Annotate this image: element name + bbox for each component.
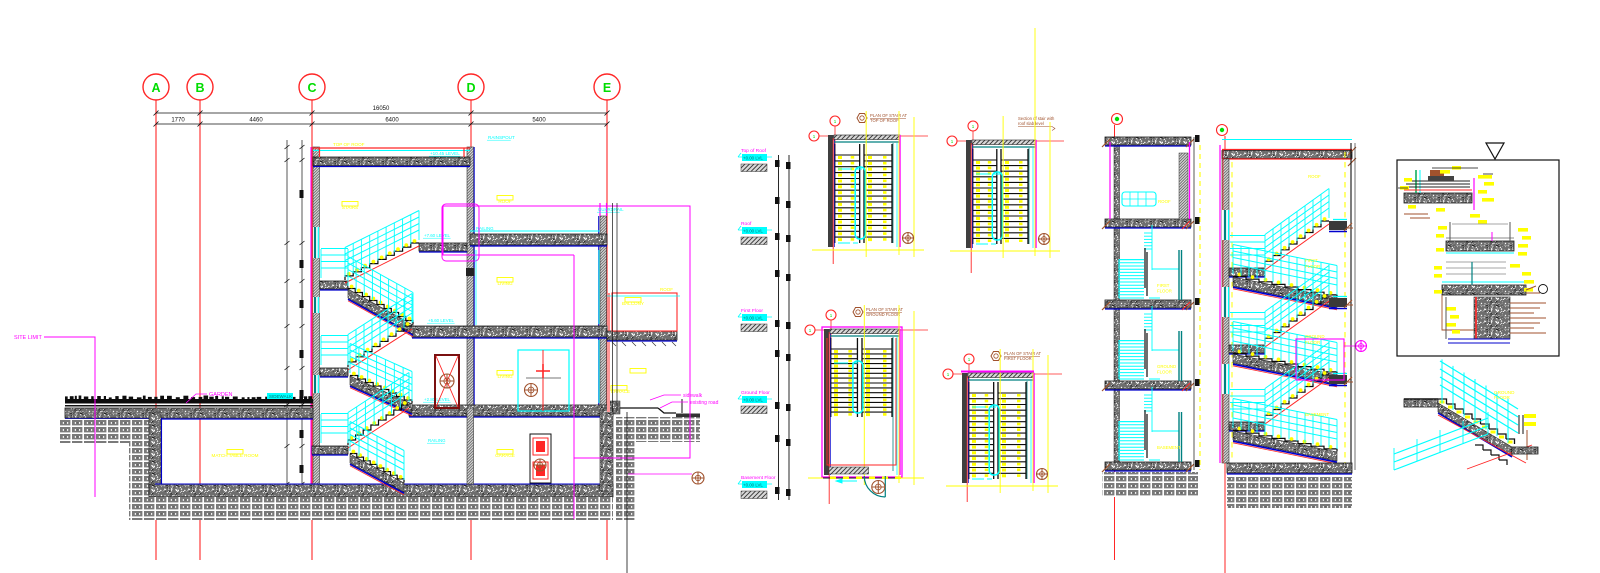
svg-text:C: C [307,81,316,95]
flight light mid368 to first floor [348,326,412,367]
detail marker circle left [943,369,953,379]
balcony [607,331,677,340]
detail marker circle top [830,116,840,126]
svg-text:First Floor: First Floor [741,308,763,314]
grid line B [199,100,201,560]
flight heavy mid281 to first floor [348,289,413,334]
svg-text:STAIRS: STAIRS [342,205,358,210]
stair plan left wall [828,135,834,247]
long yellow centerline above plan2 [1034,28,1036,140]
earth hatch left [60,419,149,443]
footing hatch bottom [129,497,613,520]
grid line A [155,100,157,560]
grid line C [311,100,313,560]
svg-text:GARAGE: GARAGE [495,453,515,458]
detail marker circle top [964,354,974,364]
yellow marks A [1400,186,1409,190]
wall grid E (right) [600,216,607,408]
tower1 left wall [1114,137,1120,470]
yellow centerlines [1002,116,1004,258]
detail marker circle top [968,121,978,131]
flower symbol [1039,234,1050,245]
roof slab left block [313,157,470,166]
svg-text:5400: 5400 [532,118,546,124]
stair plan left wall [962,373,968,483]
svg-text:BALCONY: BALCONY [622,301,644,306]
mid landing 368 [320,368,348,376]
svg-text:Ground Floor: Ground Floor [741,390,770,396]
stair well cyan [989,405,999,475]
window in left wall [313,297,320,313]
stair plan top wall hatch [830,329,900,334]
svg-text:16050: 16050 [373,106,390,112]
svg-text:ROOF: ROOF [1308,174,1321,179]
tower2 right landing 0 [1329,221,1347,230]
svg-text:Basement Floor: Basement Floor [741,475,776,481]
wall grid D (interior) [467,147,474,408]
dimension line total [156,112,607,114]
small stair lower rail [1394,434,1488,470]
svg-text:TOP OF ROOF: TOP OF ROOF [870,118,899,123]
tower1 floor slab 3 [1105,381,1191,389]
svg-text:D: D [466,81,475,95]
stair treads [831,348,857,350]
detail marker circle top [826,310,836,320]
level markers column [779,155,790,500]
label terrace [611,386,627,391]
grid bubble B [187,74,213,100]
stair well cyan [855,167,865,239]
tower1 cyan stair ladder 2 [1119,459,1144,461]
landing guardrail [321,267,348,269]
svg-text:6400: 6400 [385,118,399,124]
flight light mid446 to ground [348,405,409,445]
door arc [864,476,885,497]
door living ground cyan [518,350,569,411]
detail slab A [1404,193,1472,203]
tower1 floor slab 0 [1105,137,1191,145]
detail flower [692,472,704,484]
svg-text:SITE LIMIT: SITE LIMIT [14,335,42,341]
svg-text:B: B [195,81,204,95]
tower2 mid landing 0 [1229,268,1265,276]
tower2 roof slab [1222,139,1352,141]
svg-text:4460: 4460 [249,118,263,124]
small stair steps [1438,399,1447,404]
svg-text:Top of Roof: Top of Roof [741,148,767,154]
tower2 left wall [1222,159,1229,463]
mid landing 446 [312,446,348,454]
svg-text:FLOOR: FLOOR [1494,395,1511,400]
stair treads [973,159,997,161]
dimension line segments [156,123,607,125]
landing guardrail [321,354,348,356]
svg-text:FIRST: FIRST [1305,258,1318,263]
stair plan top wall hatch [972,140,1036,145]
svg-text:ROOF: ROOF [660,287,673,292]
ground floor slab [409,405,613,416]
detail marker circle left [947,136,957,146]
svg-text:RAINSPOUT: RAINSPOUT [488,135,515,140]
detail title hexagon [857,114,867,123]
svg-text:GARDEN: GARDEN [209,392,233,398]
label small [630,369,646,374]
tower2 mid landing 2 [1229,422,1265,430]
detail slab B [1446,241,1514,251]
label living ground [497,371,513,376]
svg-text:SIDEWALK: SIDEWALK [269,394,292,399]
flower symbol [903,233,914,244]
door garage basement [530,434,551,483]
svg-text:Roof: Roof [741,221,752,227]
yellow marks B [1438,226,1447,230]
svg-text:ROOF: ROOF [1158,199,1171,204]
flower symbol [1037,469,1048,480]
door stairwell ground [435,355,459,408]
svg-text:FIRST: FIRST [1157,283,1170,288]
grid bubble D [458,74,484,100]
svg-text:A: A [151,81,160,95]
tower2 flight heavy [1233,431,1337,461]
label stairs [342,202,358,207]
tower2 wall window [1222,364,1229,394]
flight heavy mid446 to basement [350,454,404,492]
svg-text:+0.00 LVL: +0.00 LVL [743,483,763,488]
svg-text:+0.00 LVL: +0.00 LVL [743,156,763,161]
terrace door salmon [607,342,610,412]
tower1 floor slab 1 [1105,219,1191,227]
svg-text:LIVING: LIVING [497,281,512,286]
yellow marks C [1434,266,1442,270]
svg-text:+7.60 LEVEL: +7.60 LEVEL [424,233,451,238]
svg-text:E: E [603,81,611,95]
detail marker circle left [809,131,819,141]
plan4 magenta top line [961,371,1034,373]
magenta boundary [443,206,690,458]
svg-text:BASEMENT: BASEMENT [1157,445,1181,450]
tower2 flight heavy [1233,277,1337,307]
svg-text:FLOOR: FLOOR [1157,370,1172,375]
window in left wall [313,375,320,393]
yellow centerlines [865,111,867,257]
tower2 wall window [1222,210,1229,240]
svg-text:sidewalk: sidewalk [683,393,703,399]
garden slab left [65,399,313,404]
stair tower section 1 [1112,114,1123,125]
wall grid C (left) [313,147,320,490]
stair well cyan [992,172,1002,240]
tower2 base slab [1227,463,1352,473]
svg-text:TOP OF ROOF: TOP OF ROOF [333,142,365,147]
tower2 footing [1227,477,1352,508]
tower1 footing [1102,472,1198,497]
svg-text:FLOOR: FLOOR [1305,340,1320,345]
inner window lines E wall [598,250,600,403]
svg-text:GROUND: GROUND [1157,364,1176,369]
grid line D [470,100,472,560]
svg-text:+0.00 LVL: +0.00 LVL [743,316,763,321]
stair plan left wall [966,140,972,248]
stair treads [835,154,860,156]
svg-text:FLOOR: FLOOR [1157,289,1172,294]
grid line E [606,100,608,560]
grid bubble C [299,74,325,100]
stair plan left wall [824,329,830,475]
tower1 floor slab 4 [1105,462,1191,470]
roof slab right block [470,230,600,232]
stair plan top wall hatch [968,373,1034,378]
tower2 right landing 1 [1329,298,1347,307]
detail box frame [1397,160,1559,356]
svg-text:+5.60 LEVEL: +5.60 LEVEL [428,318,455,323]
tower2 right landing 2 [1329,375,1347,384]
svg-text:GROUND: GROUND [1305,334,1325,339]
tower2 flight heavy [1233,354,1337,384]
label roof [497,196,513,201]
brown leaders [1510,302,1546,304]
tower2 right wall lines [1350,143,1352,473]
flight light mid281 to F1 [345,243,419,280]
svg-text:RAILING: RAILING [428,438,446,443]
svg-text:MATCH TABLE ROOM: MATCH TABLE ROOM [212,453,259,458]
svg-text:+2.80 LEVEL: +2.80 LEVEL [424,397,451,402]
first floor slab [412,326,607,337]
tower2 flight light [1265,298,1329,344]
stair section large [1217,125,1228,136]
detail title hexagon [853,308,863,317]
wall grid D basement [467,408,474,484]
plan3 red inner frame [827,338,896,465]
mid landing 281 [320,281,348,289]
tower1 roof furniture [1122,192,1156,206]
yellow centerlines [863,305,865,485]
tower2 flight light [1265,221,1329,267]
detail title hexagon [991,352,1001,361]
magenta rounded box [442,204,479,261]
sidewalk right [613,407,658,409]
svg-text:GROUND FLOOR: GROUND FLOOR [866,312,900,317]
svg-text:existing road: existing road [690,400,719,406]
tower1 cyan stair ladder 0 [1119,297,1144,299]
stair well cyan [853,361,863,413]
detail box triangle [1486,143,1504,159]
detail marker circle left [805,325,815,335]
svg-text:+10.45 LEVEL: +10.45 LEVEL [430,151,460,156]
tower2 mid landing 1 [1229,345,1265,353]
yellow marks D [1446,307,1456,311]
svg-text:TERRACE: TERRACE [608,389,630,394]
label living first [497,278,513,283]
grid bubble E [594,74,620,100]
svg-text:FLOOR: FLOOR [1305,264,1320,269]
tower1 floor slab 2 [1105,300,1191,308]
svg-text:FIRST FLOOR: FIRST FLOOR [1004,356,1032,361]
stair plan top wall hatch [834,135,900,140]
svg-text:LIVING: LIVING [497,374,512,379]
tower2 magenta box [1296,339,1344,380]
small stair detail [1404,399,1438,407]
tower2 wall window [1222,287,1229,317]
basement left wall [149,412,161,499]
svg-text:+0.00 LVL: +0.00 LVL [743,398,763,403]
detail footing [1474,297,1510,339]
tower1 cyan stair ladder 1 [1119,378,1144,380]
svg-text:GUARDRAIL: GUARDRAIL [598,207,624,212]
vertical dim strings left of section [287,140,302,500]
stair treads [969,392,994,394]
basement floor slab [149,484,613,497]
svg-text:1770: 1770 [171,118,185,124]
basement right wall [600,408,613,491]
window in left wall [313,227,320,258]
grid bubble A [143,74,169,100]
svg-text:ROOF: ROOF [498,199,511,204]
landing guardrail [321,432,348,434]
tower2 magenta flower [1356,341,1367,352]
flight heavy mid368 to ground [350,376,412,413]
detail slab C [1442,285,1526,295]
svg-text:roof slab level: roof slab level [1018,121,1044,126]
yellow centerlines [999,349,1001,493]
tower2 flight light [1265,375,1329,421]
label match table room [227,450,243,455]
tower1 right wall top storey [1179,153,1188,219]
landing level F1 [419,243,467,251]
svg-text:+0.00 LVL: +0.00 LVL [743,229,763,234]
label garage [497,450,513,455]
svg-text:BASEMENT: BASEMENT [1305,412,1329,417]
